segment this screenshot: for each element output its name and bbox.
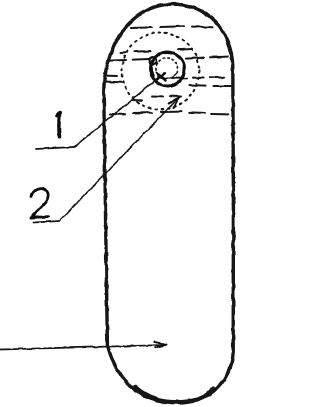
label 1 underline xyxy=(36,147,74,149)
leader 2 arrowhead xyxy=(169,97,180,108)
bottom arrow shaft xyxy=(0,345,165,350)
x mark xyxy=(157,73,166,81)
solid circle (item 1) xyxy=(151,52,185,86)
dashed hatch row E xyxy=(106,82,231,86)
dashed hatch row G xyxy=(110,112,228,115)
solid circle sketch overlap loop xyxy=(149,57,156,64)
dashed hatch row F xyxy=(131,96,181,101)
dashed hatch row B xyxy=(120,49,192,53)
dashed hatch row A xyxy=(131,26,213,28)
leader line 2 xyxy=(60,98,180,222)
label 2 underline xyxy=(34,221,60,223)
inner dotted circle xyxy=(156,58,178,75)
dashed hatch row D xyxy=(105,76,224,79)
label 2 numeral xyxy=(31,189,48,218)
capsule bottom thick stroke xyxy=(135,387,213,402)
solid circle left emphasis stroke xyxy=(152,61,154,77)
dashed hatch row C xyxy=(108,57,228,61)
dotted circle (item 2 region) xyxy=(122,33,199,110)
bottom arrowhead xyxy=(155,342,167,348)
inner circle solid lower arc xyxy=(158,73,178,79)
label 1 numeral xyxy=(57,113,61,137)
capsule body outline xyxy=(104,4,234,402)
leader line 1 xyxy=(74,78,159,148)
